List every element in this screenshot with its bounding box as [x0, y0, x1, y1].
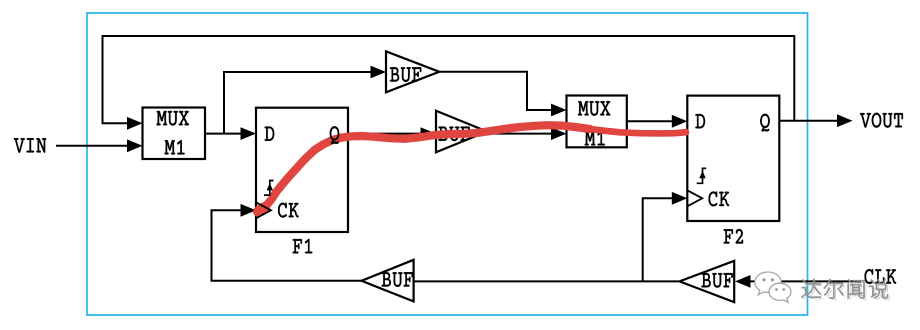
- buffer BUF (top feedback buffer): [386, 51, 439, 92]
- second mux label MUX: [578, 101, 610, 116]
- middle BUF label: [439, 127, 470, 142]
- mux M1 (second multiplexer before F2): [567, 96, 627, 148]
- buffer BUF (bottom-left clock buffer): [362, 260, 414, 302]
- F1 pin label D: [265, 127, 275, 141]
- watermark: WeChat icon bubbles: [755, 272, 791, 302]
- top BUF label: [390, 67, 421, 82]
- F2 pin label D: [696, 114, 706, 128]
- VIN label: [14, 138, 46, 153]
- wire: F2 Q output to VOUT: [779, 120, 838, 122]
- bottom-left BUF label: [382, 272, 413, 287]
- F1 rising-edge symbol: [264, 181, 274, 196]
- wire: feedback from Q2/VOUT node up over top rail to MUX M1 upper input: [103, 36, 795, 123]
- arrowhead into MUX M1 lower input: [127, 139, 143, 152]
- F2 clock wedge: [687, 190, 702, 206]
- VOUT label: [860, 113, 903, 128]
- F2 designator label: [724, 229, 743, 244]
- F1 pin label Q: [330, 126, 339, 144]
- F2 pin label Q: [760, 114, 769, 132]
- arrowhead into second MUX upper input: [551, 104, 567, 117]
- wire: branch up to F2 CK: [643, 198, 673, 281]
- wire: top BUF output to MUX M1 (second) upper input: [439, 72, 552, 110]
- F2 pin label CK: [709, 192, 730, 207]
- arrowhead into bottom-right BUF: [735, 275, 751, 288]
- mux M1 label M1: [165, 140, 185, 155]
- second mux label M1: [585, 131, 605, 146]
- wire: F1 Q output to middle BUF: [348, 133, 422, 135]
- arrowhead into F1 D: [241, 127, 257, 140]
- watermark: text 达尔闻说: [804, 281, 890, 300]
- arrowhead into F1 CK: [241, 204, 257, 217]
- frame border: [87, 13, 808, 315]
- F1 pin label CK: [278, 203, 299, 218]
- arrowhead into F2 D: [672, 115, 688, 128]
- wire: VIN input: [56, 145, 129, 147]
- wire: second MUX output to F2 D input: [627, 120, 673, 122]
- flip-flop F1: [256, 108, 348, 232]
- buffer BUF (bottom-right clock buffer): [680, 261, 735, 302]
- mux M1 label MUX: [157, 111, 189, 126]
- highlighted critical path (red marker stroke): [258, 125, 686, 211]
- flip-flop F2: [687, 96, 779, 221]
- wire: middle BUF output to second MUX lower input: [487, 133, 552, 135]
- wire: CLK input line: [749, 280, 861, 282]
- arrowhead into F2 CK: [672, 192, 688, 205]
- F2 rising-edge symbol: [697, 168, 707, 183]
- bottom-right BUF label: [702, 273, 733, 288]
- arrowhead into second MUX lower input: [551, 127, 567, 140]
- arrowhead into top BUF: [371, 66, 387, 79]
- wire: node at D wire up to top BUF input: [224, 72, 372, 134]
- wire: left BUF output up to F1 CK: [212, 210, 362, 280]
- wire: MUX M1 output to F1 D input: [205, 133, 243, 135]
- arrowhead at VOUT: [837, 114, 853, 127]
- F1 clock wedge: [256, 202, 271, 218]
- wire: bottom clock rail from right BUF to left BUF, with branch up to F2 CK: [414, 280, 680, 282]
- buffer BUF (middle data buffer): [436, 111, 487, 153]
- CLK label: [865, 269, 897, 284]
- arrowhead into MUX M1 upper input: [127, 117, 143, 130]
- mux M1 (input multiplexer): [143, 108, 206, 160]
- arrowhead into middle BUF: [421, 127, 437, 140]
- F1 designator label: [293, 239, 313, 254]
